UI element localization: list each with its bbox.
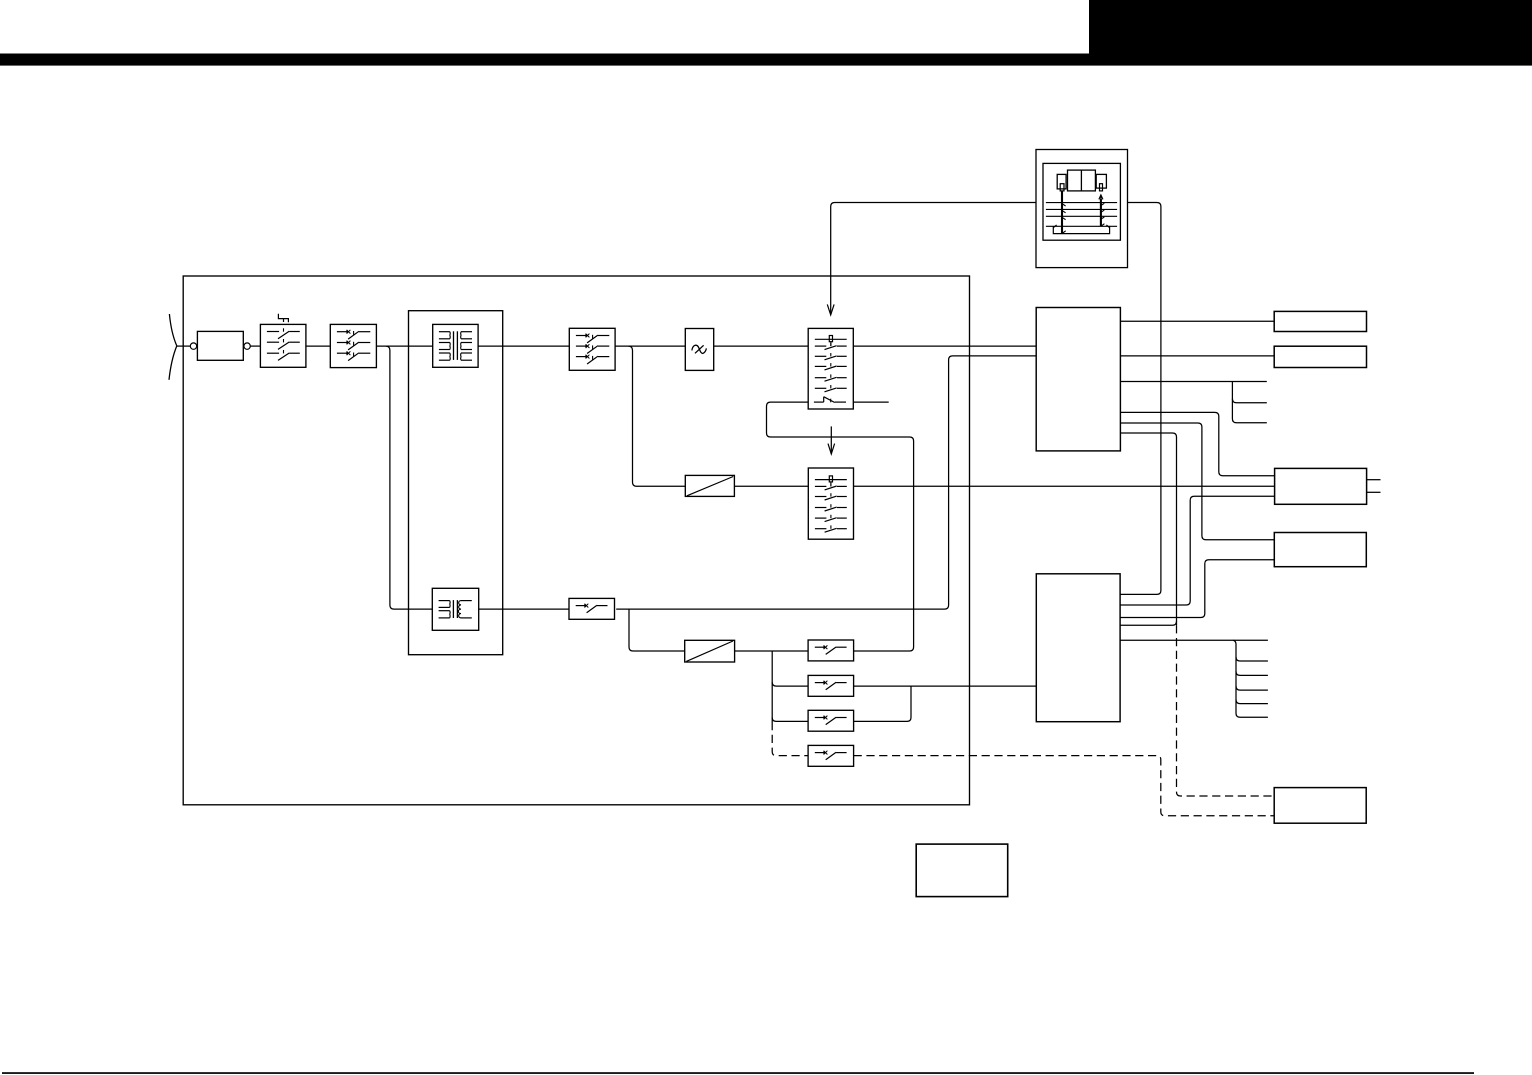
pulse icon <box>278 314 288 322</box>
wire A2 to SA <box>735 650 809 652</box>
wire switch branch vertical <box>771 651 773 722</box>
AGC box <box>685 329 713 371</box>
wire A1 to SW2 <box>734 485 808 487</box>
wire branch to SB <box>772 682 808 686</box>
wire IC1 fork line <box>1120 381 1266 383</box>
wire SW2 out to P3 <box>854 485 1275 487</box>
switch SD <box>808 745 854 766</box>
transformer T1 <box>433 324 478 367</box>
header black tab <box>1089 0 1532 54</box>
wire SB out to IC2 <box>854 685 1037 687</box>
wire P3 stub <box>1367 491 1381 493</box>
wire branch to SC <box>772 717 808 721</box>
wire rail to IC1 <box>853 345 1036 347</box>
wire IC1 to P2 <box>1120 355 1274 357</box>
connector box P2 <box>1274 346 1366 367</box>
wire branch to A2 <box>629 609 685 651</box>
terminal circle out <box>244 343 250 349</box>
attenuator A1 <box>685 475 734 496</box>
wire T2 to S3 <box>479 608 569 610</box>
record switch S3 <box>569 598 615 619</box>
wire IC1 to P1 <box>1120 320 1274 322</box>
wire rail <box>478 345 569 347</box>
wire <box>177 345 191 347</box>
head drum assembly <box>1036 150 1128 268</box>
wire IC2 comb line <box>1120 639 1268 641</box>
connector box P5 <box>1274 788 1366 824</box>
footer rule <box>2 1072 1474 1074</box>
comb bracket <box>1233 640 1268 717</box>
wire P3 stub <box>1367 479 1381 481</box>
wire rail <box>306 345 330 347</box>
wire IC1 to P4 upper <box>1120 423 1274 540</box>
wire rail <box>250 345 260 347</box>
switch SC <box>808 710 854 731</box>
connector box P1 <box>1274 311 1366 331</box>
switch SB <box>808 675 854 696</box>
wire IC1 down solid <box>1120 433 1176 625</box>
wire SC out merge <box>854 686 911 721</box>
wire head drum to IC2 <box>1120 203 1161 595</box>
attenuator A2 <box>685 640 735 662</box>
head switch bank SW1 <box>808 328 853 409</box>
connector box P4 <box>1274 533 1366 567</box>
wire rail <box>376 345 432 347</box>
wire IC1 to P3 upper <box>1120 412 1274 475</box>
tuner sub-box <box>409 311 503 655</box>
fork bracket <box>1232 382 1266 423</box>
transformer T2 <box>432 588 478 630</box>
switch bank SW2 <box>808 468 853 539</box>
main unit outline box <box>183 276 969 805</box>
wire rail <box>615 345 685 347</box>
connector box P3 <box>1275 468 1367 504</box>
switch S2b <box>569 328 615 370</box>
wire rail branch down to T2 <box>386 346 432 609</box>
switch S2 <box>330 324 376 367</box>
switch SA <box>808 640 854 661</box>
IC2 audio/servo process <box>1036 574 1120 722</box>
wire SW1 stub <box>853 401 888 403</box>
wire IC2 to P3 lower <box>1120 496 1275 605</box>
terminal circle in <box>190 343 196 349</box>
wire IC2 merge up <box>1120 621 1176 625</box>
IC1 luminance/chroma process <box>1036 308 1120 451</box>
wire head drum to SW1 with arrow <box>831 203 1036 315</box>
arrow SW1 to SW2 <box>830 426 832 454</box>
wire dashed down to P5 upper <box>1177 625 1275 796</box>
wire dashed branch to SD <box>772 722 808 756</box>
antenna <box>169 314 177 380</box>
wire SW1 out second line to IC1 <box>616 356 1036 609</box>
balun box <box>197 331 243 360</box>
legend box <box>916 844 1008 897</box>
switch S1 <box>260 324 306 367</box>
wire IC2 to P4 lower <box>1120 560 1274 618</box>
wire rail branch down to A1 <box>629 346 686 486</box>
wire SW1 jog to SA <box>767 402 914 651</box>
wire rail <box>714 345 809 347</box>
wire SD out dashed to P5 <box>854 756 1275 816</box>
header rule bar <box>0 54 1532 66</box>
